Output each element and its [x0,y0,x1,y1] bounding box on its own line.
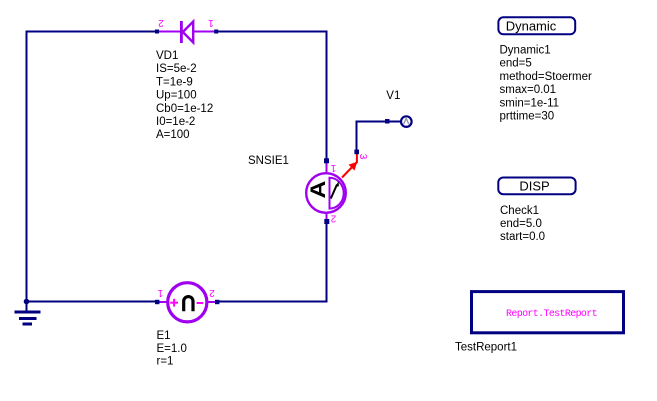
anode triangle [183,22,193,43]
svg-text:E1: E1 [157,330,171,342]
svg-text:smin=1e-11: smin=1e-11 [500,97,560,109]
dial half-circle [330,178,344,209]
svg-text:Report.TestReport: Report.TestReport [506,309,597,320]
pin2 connection square [155,30,159,34]
Dynamic parameter text [500,45,593,123]
body circle [168,283,207,322]
E1 parameter text [157,330,187,367]
svg-text:SNSIE1: SNSIE1 [248,155,289,167]
pin2 connection square [215,300,219,304]
pin stub top [325,161,327,174]
pin1 connection square [324,158,329,163]
wire top horizontal left (corner to diode pin2) [26,31,158,33]
svg-text:end=5: end=5 [500,58,532,70]
svg-text:method=Stoermer: method=Stoermer [500,71,593,83]
svg-text:1: 1 [208,17,214,28]
svg-text:A: A [306,181,330,199]
svg-text:2: 2 [158,17,164,28]
pin stub bottom [325,212,327,222]
plus sign [170,302,178,304]
wire top horizontal right (diode pin1 to corner) [216,31,328,33]
svg-text:Dynamic: Dynamic [506,18,557,33]
svg-text:1: 1 [157,287,163,298]
wire vertical [356,121,358,151]
ammeter SNSIE1 [306,158,346,224]
pin stub left [157,301,168,303]
VD1 parameter text [156,50,213,141]
wire bottom horizontal right (E1 pin2 to corner) [217,301,328,303]
svg-text:Check1: Check1 [500,205,539,217]
wire right vertical upper (corner to ammeter pin1) [326,31,328,161]
needle [331,185,337,199]
wire bottom horizontal left (junction to E1 pin1) [27,301,158,303]
pin2 connection square [324,219,329,224]
svg-text:V1: V1 [386,90,400,102]
wire left vertical [26,31,28,302]
svg-text:T=1e-9: T=1e-9 [156,76,193,88]
svg-text:DISP: DISP [519,178,549,193]
wire right vertical lower (ammeter pin2 to corner) [326,222,328,303]
probe circle [401,116,412,127]
connection square on wire [385,119,390,124]
pin1 connection square [155,300,159,304]
pin stub right [206,301,217,303]
svg-text:2: 2 [209,287,215,298]
connection square bottom [354,150,359,155]
junction node at ground [24,299,30,305]
ground [15,302,41,326]
svg-text:r=1: r=1 [157,355,174,367]
V1 probe [354,116,411,154]
svg-text:Cb0=1e-12: Cb0=1e-12 [156,103,213,115]
red control arrow (pin 3 link) [342,154,368,178]
DISP parameter text [500,205,545,243]
svg-text:TestReport1: TestReport1 [455,342,517,354]
svg-text:3: 3 [357,154,368,160]
svg-text:smax=0.01: smax=0.01 [500,84,557,96]
svg-text:2: 2 [330,213,336,224]
wire horizontal [357,121,401,123]
Dynamic block [498,17,575,34]
DISP block [498,178,575,195]
svg-text:1: 1 [330,162,336,173]
minus sign [197,302,204,304]
svg-text:E=1.0: E=1.0 [157,343,187,355]
pin stub right [193,31,216,33]
diode VD1 [155,17,218,43]
probe glyph [404,118,409,124]
svg-text:Up=100: Up=100 [156,90,197,102]
svg-text:VD1: VD1 [156,50,178,62]
sine half-wave symbol [184,297,193,312]
svg-text:A=100: A=100 [156,129,190,141]
pin1 connection square [214,30,218,34]
svg-text:prttime=30: prttime=30 [500,111,555,123]
svg-text:I0=1e-2: I0=1e-2 [156,116,195,128]
body circle [306,173,346,213]
source E1 [155,283,219,322]
svg-text:IS=5e-2: IS=5e-2 [156,63,197,75]
svg-text:end=5.0: end=5.0 [500,218,542,230]
svg-text:Dynamic1: Dynamic1 [500,45,551,57]
cathode bar [180,21,183,43]
pin stub left [157,31,181,33]
Report.TestReport block [472,292,624,333]
svg-text:start=0.0: start=0.0 [500,231,545,243]
